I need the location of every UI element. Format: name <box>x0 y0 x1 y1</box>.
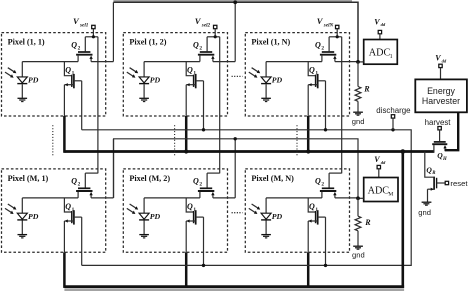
V_selN label <box>317 16 334 28</box>
discharge row wire (row 1 drains) <box>82 130 412 266</box>
svg-text:Pixel (M, 1): Pixel (M, 1) <box>8 174 49 183</box>
node source bus (1,2) junction <box>184 149 188 153</box>
photodiode PD (M,1) <box>17 213 27 220</box>
wire Q2 (1,2) drain to column <box>213 61 235 63</box>
svg-text:Q: Q <box>187 66 193 75</box>
node V_sel1 junction <box>92 35 95 38</box>
svg-text:Q: Q <box>193 40 199 49</box>
svg-text:V: V <box>73 16 80 26</box>
transistor Q2 (M,1) <box>76 173 98 198</box>
row M output feed wire <box>114 139 358 199</box>
wire Q1 (M,2) drain column <box>203 217 205 265</box>
R label (bottom) <box>364 218 371 227</box>
svg-text:H: H <box>442 157 447 162</box>
pixel (1,2) label <box>129 38 166 47</box>
wire node to resistor R (top) <box>357 62 359 87</box>
wire PD (1,2) cathode to ground <box>143 84 145 98</box>
wire PD (M,1) anode <box>21 198 23 213</box>
resistor R (column M) <box>355 216 361 231</box>
photodiode PD (M,2) <box>139 213 149 220</box>
photodiode PD (1,1) <box>17 77 27 84</box>
wire Q2 (M,1) drain to column <box>91 197 113 199</box>
PD label (M,N) <box>272 212 283 221</box>
V_dd label (ADC_M) <box>374 155 386 165</box>
wire column 1 output lower segment <box>112 139 114 198</box>
svg-text:Pixel (M, N): Pixel (M, N) <box>251 174 294 183</box>
transistor Q_R <box>428 177 446 191</box>
svg-text:2: 2 <box>199 45 202 51</box>
ground symbol (column R bottom) <box>353 246 363 249</box>
svg-text:2: 2 <box>78 45 81 51</box>
svg-text:PD: PD <box>150 212 161 221</box>
node Q1 (M,2) drain junction <box>202 264 205 267</box>
wire Q_R drain <box>425 152 434 178</box>
svg-text:PD: PD <box>150 76 161 85</box>
svg-text:V: V <box>195 16 202 26</box>
transistor Q1 (1,1) <box>64 62 81 89</box>
wire pixel node (1,N) <box>266 61 322 63</box>
gnd label (column R top) <box>352 117 365 126</box>
pixel (1,2) dashed box <box>123 33 227 116</box>
photodiode PD (1,N) <box>261 77 271 84</box>
photodiode PD (1,2) <box>139 77 149 84</box>
transistor Q1 (M,2) label <box>187 202 196 213</box>
photodiode PD (1,2) light arrows <box>127 68 138 78</box>
Energy Harvester box <box>415 79 467 112</box>
svg-text:1: 1 <box>390 54 393 60</box>
wire V_dd to ADC_1 <box>379 34 381 40</box>
svg-text:Energy: Energy <box>427 86 455 96</box>
node source bus main junction <box>401 149 406 154</box>
PD label (M,1) <box>28 212 39 221</box>
wire column 2 output lower segment <box>234 139 236 198</box>
svg-text:Harvester: Harvester <box>422 96 460 106</box>
svg-text:selN: selN <box>323 22 334 28</box>
svg-text:Q: Q <box>65 66 71 75</box>
svg-text:Q: Q <box>65 202 71 211</box>
wire resistor R to ground (top) <box>357 101 359 112</box>
wire V_sel2 column <box>219 37 221 174</box>
svg-text:Pixel (1, N): Pixel (1, N) <box>251 38 290 47</box>
node Q1 (1,N) drain junction <box>324 128 327 131</box>
svg-text:Q: Q <box>193 177 199 186</box>
harvest label <box>425 118 452 127</box>
svg-text:2: 2 <box>321 45 324 51</box>
wire Q2 (M,2) drain to column <box>213 197 235 199</box>
svg-text:V: V <box>435 54 441 63</box>
svg-text:Q: Q <box>315 40 321 49</box>
transistor Q2 (1,1) <box>76 37 98 62</box>
node column 2 tap on top bus <box>233 0 237 4</box>
transistor Q2 (M,2) label <box>193 177 202 188</box>
svg-text:V: V <box>317 16 324 26</box>
transistor Q_H <box>432 142 447 153</box>
wire discharge lead <box>392 118 394 130</box>
transistor Q1 (1,N) label <box>309 66 318 77</box>
svg-text:V: V <box>374 17 380 26</box>
photodiode PD (1,N) light arrows <box>249 68 260 78</box>
transistor Q1 (M,N) <box>308 198 325 225</box>
svg-text:R: R <box>363 84 370 93</box>
transistor Q2 (M,N) label <box>315 177 324 188</box>
pixel (M,N) label <box>251 174 294 183</box>
wire resistor R to ground (bottom) <box>357 231 359 246</box>
PD label (1,N) <box>272 76 283 85</box>
wire column 2 output upper segment <box>234 2 236 61</box>
wire Q1 (1,2) drain column <box>203 81 205 130</box>
svg-text:dd: dd <box>381 160 386 165</box>
transistor Q2 (1,1) label <box>71 40 80 51</box>
ground symbol PD (M,2) <box>139 235 149 238</box>
PD label (1,1) <box>28 76 39 85</box>
horizontal ellipsis row 1 <box>232 75 243 77</box>
horizontal ellipsis row M <box>232 212 243 214</box>
vertical ellipsis column 2 <box>174 125 176 157</box>
wire pixel node (M,N) <box>266 197 322 199</box>
transistor Q1 (M,1) label <box>65 202 74 213</box>
wire Q1 (M,N) source column <box>307 221 309 288</box>
wire PD (1,N) anode <box>265 62 267 77</box>
pixel (1,1) dashed box <box>2 33 106 116</box>
svg-text:dd: dd <box>381 22 386 27</box>
node discharge tap junction <box>391 128 394 131</box>
node ADC_1 input junction <box>356 60 360 64</box>
wire V_dd to ADC_M <box>378 169 380 178</box>
wire PD (1,1) anode <box>21 62 23 77</box>
svg-text:PD: PD <box>272 76 283 85</box>
wire column 1 output upper segment <box>112 2 114 61</box>
photodiode PD (M,2) light arrows <box>127 204 138 214</box>
wire V_selN lead <box>336 29 338 37</box>
ground symbol PD (M,N) <box>261 235 271 238</box>
wire Q_R source to ground <box>427 189 429 202</box>
svg-text:sel2: sel2 <box>201 22 211 28</box>
vertical ellipsis column 1 <box>52 125 54 157</box>
wire PD (1,N) cathode to ground <box>265 84 267 98</box>
wire PD (M,2) cathode to ground <box>143 221 145 235</box>
transistor Q2 (M,2) <box>198 173 220 198</box>
op-amp ADC_1 box <box>364 40 398 65</box>
R label (top) <box>363 84 370 93</box>
svg-text:Q: Q <box>309 202 315 211</box>
wire V_sel2 lead <box>214 29 216 37</box>
transistor Q1 (M,2) <box>186 198 203 225</box>
discharge terminal <box>391 115 394 118</box>
svg-text:R: R <box>432 171 436 176</box>
svg-text:Q: Q <box>187 202 193 211</box>
wire Q2 (M,N) drain to column <box>335 197 358 199</box>
wire Q1 (1,1) drain column <box>81 81 83 130</box>
node ADC_M input junction <box>356 196 360 200</box>
wire Q_H to harvester (thick) <box>445 112 458 150</box>
svg-text:2: 2 <box>78 182 81 188</box>
V_dd label (ADC_1) <box>374 17 386 27</box>
ground symbol PD (M,1) <box>18 235 28 238</box>
svg-text:Q: Q <box>309 66 315 75</box>
svg-text:Pixel (M, 2): Pixel (M, 2) <box>129 174 170 183</box>
ground symbol PD (1,2) <box>139 98 149 101</box>
bold source bus vertical link <box>401 152 404 288</box>
node V_sel2 junction <box>214 35 217 38</box>
transistor Q2 (M,N) <box>320 173 342 198</box>
wire ADC_1 input stub <box>358 61 364 63</box>
pixel (M,2) label <box>129 174 170 183</box>
svg-text:ADC: ADC <box>369 48 391 59</box>
wire V_dd to harvester <box>440 68 442 80</box>
svg-text:Q: Q <box>71 40 77 49</box>
pixel (1,N) dashed box <box>245 33 349 116</box>
pixel (M,1) label <box>8 174 49 183</box>
wire Q1 (M,N) drain column <box>325 217 327 265</box>
svg-text:gnd: gnd <box>418 208 431 217</box>
svg-text:PD: PD <box>28 76 39 85</box>
wire PD (M,2) anode <box>143 198 145 213</box>
wire PD (M,N) cathode to ground <box>265 221 267 235</box>
ADC_M label <box>368 186 394 198</box>
wire Q1 (M,2) source column <box>185 221 187 288</box>
ground symbol (Q_R) <box>422 202 432 205</box>
cropped bus line top (gray) <box>113 0 352 2</box>
V_dd terminal (ADC_M) <box>377 165 380 168</box>
V_selN terminal <box>336 25 339 28</box>
wire Q2 (1,1) drain to column <box>91 61 113 63</box>
V_dd label (harvester) <box>435 54 447 64</box>
pixel (M,2) dashed box <box>123 169 227 252</box>
transistor Q1 (M,N) label <box>309 202 318 213</box>
svg-text:R: R <box>364 218 371 227</box>
wire Q1 (1,1) source column <box>63 85 65 153</box>
wire ADC_M input stub <box>358 197 364 199</box>
wire Q1 (M,1) source column <box>63 221 65 288</box>
wire PD (1,1) cathode to ground <box>21 84 23 98</box>
svg-text:2: 2 <box>321 182 324 188</box>
V_sel2 label <box>195 16 211 28</box>
svg-text:dd: dd <box>442 58 447 63</box>
svg-text:harvest: harvest <box>425 118 452 127</box>
wire Q1 (1,2) source column <box>185 85 187 153</box>
pixel (M,N) dashed box <box>245 169 349 252</box>
wire Q1 (1,N) source column <box>307 85 309 153</box>
V_sel1 label <box>73 16 89 28</box>
wire PD (M,N) anode <box>265 198 267 213</box>
node row M feed column 2 junction <box>234 137 237 140</box>
transistor Q2 (1,N) label <box>315 40 324 51</box>
transistor Q2 (M,1) label <box>71 177 80 188</box>
bold source bus row 1 <box>64 150 434 153</box>
svg-text:gnd: gnd <box>352 117 365 126</box>
svg-text:PD: PD <box>272 212 283 221</box>
wire pixel node (1,1) <box>22 61 78 63</box>
wire PD (M,1) cathode to ground <box>21 221 23 235</box>
photodiode PD (M,N) light arrows <box>249 204 260 214</box>
wire Q1 (1,N) drain column <box>325 81 327 130</box>
top column-output bus wire <box>113 2 358 62</box>
wire V_sel1 lead <box>92 29 94 37</box>
wire Q2 (1,N) drain to column <box>335 61 358 63</box>
transistor Q1 (1,2) <box>186 62 203 89</box>
Energy Harvester label <box>422 86 460 106</box>
svg-text:M: M <box>388 192 393 198</box>
op-amp ADC_M box <box>364 178 398 202</box>
wire PD (1,2) anode <box>143 62 145 77</box>
V_dd terminal (harvester) <box>439 64 442 67</box>
svg-text:V: V <box>374 155 380 164</box>
node Q1 (M,N) drain junction <box>324 264 327 267</box>
discharge label <box>376 106 411 115</box>
node source bus (1,N) junction <box>306 149 310 153</box>
svg-text:discharge: discharge <box>376 106 411 115</box>
ADC_1 label <box>369 48 393 60</box>
wire harvest lead <box>439 130 441 141</box>
svg-text:Pixel (1, 1): Pixel (1, 1) <box>8 38 45 47</box>
wire V_sel1 column <box>97 37 99 174</box>
V_sel2 terminal <box>214 25 217 28</box>
transistor Q1 (1,2) label <box>187 66 196 77</box>
svg-text:PD: PD <box>28 212 39 221</box>
transistor Q2 (1,2) <box>198 37 220 62</box>
wire pixel node (M,2) <box>144 197 200 199</box>
photodiode PD (1,1) light arrows <box>5 68 16 78</box>
transistor Q2 (1,2) label <box>193 40 202 51</box>
gnd label (Q_R) <box>418 208 431 217</box>
V_dd terminal (ADC_1) <box>378 30 381 33</box>
svg-text:reset: reset <box>450 179 468 188</box>
cropped bus line bottom (gray) <box>64 288 404 291</box>
wire Q1 (M,1) drain column <box>81 217 83 265</box>
resistor R (column 1) <box>355 87 361 102</box>
wire V_selN column <box>341 37 343 174</box>
photodiode PD (M,1) light arrows <box>5 204 16 214</box>
PD label (1,2) <box>150 76 161 85</box>
Q_R label <box>426 165 436 176</box>
wire pixel node (1,2) <box>144 61 200 63</box>
svg-text:sel1: sel1 <box>79 22 89 28</box>
PD label (M,2) <box>150 212 161 221</box>
photodiode PD (M,N) <box>261 213 271 220</box>
svg-text:Q: Q <box>71 177 77 186</box>
transistor Q2 (1,N) <box>320 37 342 62</box>
node Q1 (1,2) drain junction <box>202 128 205 131</box>
harvest terminal <box>438 127 441 130</box>
ground symbol PD (1,N) <box>261 98 271 101</box>
svg-text:ADC: ADC <box>368 186 390 197</box>
ground symbol PD (1,1) <box>18 98 28 101</box>
reset terminal <box>445 181 448 184</box>
svg-text:Q: Q <box>315 177 321 186</box>
svg-text:2: 2 <box>199 182 202 188</box>
wire pixel node (M,1) <box>22 197 78 199</box>
gnd label (column R bottom) <box>352 251 365 260</box>
vertical ellipsis column N <box>296 125 298 157</box>
pixel (M,1) dashed box <box>2 169 106 252</box>
transistor Q1 (M,1) <box>64 198 81 225</box>
wire node to resistor R (bottom) <box>357 198 359 216</box>
transistor Q1 (1,1) label <box>65 66 74 77</box>
pixel (1,1) label <box>8 38 45 47</box>
Q_H label <box>437 151 447 162</box>
V_sel1 terminal <box>92 25 95 28</box>
ground symbol (column R top) <box>353 112 363 115</box>
reset label <box>450 179 468 188</box>
svg-text:gnd: gnd <box>352 251 365 260</box>
node V_selN junction <box>336 35 339 38</box>
bold source bus row M <box>64 285 404 288</box>
pixel (1,N) label <box>251 38 290 47</box>
transistor Q1 (1,N) <box>308 62 325 89</box>
svg-text:Pixel (1, 2): Pixel (1, 2) <box>129 38 166 47</box>
